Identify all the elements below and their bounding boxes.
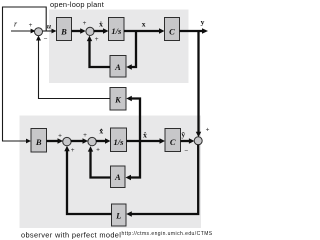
- observer shaded region: [20, 116, 202, 229]
- svg-text:+: +: [29, 22, 33, 29]
- svg-text:ẋ: ẋ: [99, 19, 103, 28]
- wire xhat node up to K input: [126, 96, 140, 141]
- page background: [0, 0, 212, 240]
- svg-text:+: +: [95, 36, 99, 43]
- svg-text:−: −: [44, 36, 48, 43]
- svg-text:+: +: [83, 132, 87, 139]
- svg-text:x̂̇: x̂̇: [99, 127, 103, 136]
- wire x node down to A (plant): [126, 31, 136, 70]
- wire yhat from observer C to comparator: [181, 138, 195, 143]
- svg-text:+: +: [71, 147, 75, 154]
- svg-text:A: A: [114, 62, 121, 72]
- arrowhead into observer B: [26, 139, 31, 144]
- svg-text:ŷ: ŷ: [181, 130, 185, 139]
- wire S4 to observer 1/s: [96, 138, 111, 143]
- svg-text:y: y: [201, 18, 205, 27]
- svg-text:1/s: 1/s: [111, 26, 122, 36]
- open-loop plant shaded region: [49, 10, 189, 84]
- block 1/s (observer): [111, 128, 127, 152]
- block C (observer): [165, 129, 181, 152]
- svg-text:C: C: [169, 26, 175, 36]
- svg-text:A: A: [114, 172, 121, 182]
- wire A to S2 bottom: [87, 36, 110, 67]
- svg-text:http://ctms.engin.umich.edu/CT: http://ctms.engin.umich.edu/CTMS: [122, 231, 213, 237]
- svg-text:observer with perfect model: observer with perfect model: [21, 231, 121, 240]
- summing junction S4 (observer): [88, 137, 96, 145]
- block B (observer): [31, 129, 47, 153]
- summing junction S5 comparator: [194, 137, 202, 145]
- svg-text:+: +: [58, 132, 62, 139]
- summing junction S2: [86, 27, 94, 35]
- svg-text:x̂: x̂: [143, 130, 147, 139]
- block 1/s (plant): [109, 18, 125, 41]
- block C (plant): [165, 18, 180, 41]
- wire u from S1 to B: [43, 29, 57, 34]
- block A (plant): [110, 56, 126, 78]
- svg-text:x: x: [142, 19, 146, 28]
- wire observer A to S4 bottom: [88, 146, 111, 177]
- wire xhat from observer 1/s to observer C: [127, 138, 166, 143]
- wire K output to S1 bottom: [36, 36, 110, 99]
- svg-text:+: +: [96, 146, 100, 153]
- wire y feedback down to comparator: [196, 31, 201, 137]
- wire r input: [11, 29, 36, 34]
- svg-text:+: +: [83, 20, 87, 27]
- svg-text:1/s: 1/s: [114, 137, 125, 147]
- wire xhat node down to observer A: [126, 141, 141, 180]
- svg-text:+: +: [206, 127, 210, 134]
- block A (observer): [111, 166, 126, 188]
- wire u feed to observer (up over left and down): [3, 7, 47, 141]
- svg-text:C: C: [170, 137, 176, 147]
- wire L output to S3 bottom: [64, 146, 111, 214]
- svg-text:u: u: [47, 21, 51, 30]
- svg-text:B: B: [35, 137, 42, 147]
- svg-text:open-loop plant: open-loop plant: [50, 0, 104, 9]
- block B (plant): [57, 18, 72, 41]
- summing junction S3 (observer): [63, 137, 71, 145]
- svg-text:B: B: [60, 26, 67, 36]
- wire observer B to S3: [47, 138, 64, 143]
- block L: [112, 204, 127, 226]
- wire comparator output down to L: [126, 145, 198, 217]
- wire y output: [180, 28, 209, 34]
- wire B to S2: [72, 28, 86, 33]
- wire x from 1/s to C: [124, 28, 165, 33]
- svg-text:−: −: [184, 148, 188, 155]
- wire S3 to S4: [71, 138, 88, 143]
- block K: [110, 88, 126, 111]
- svg-text:L: L: [115, 211, 121, 221]
- wire S2 to 1/s: [93, 28, 108, 33]
- summing junction S1: [35, 28, 43, 36]
